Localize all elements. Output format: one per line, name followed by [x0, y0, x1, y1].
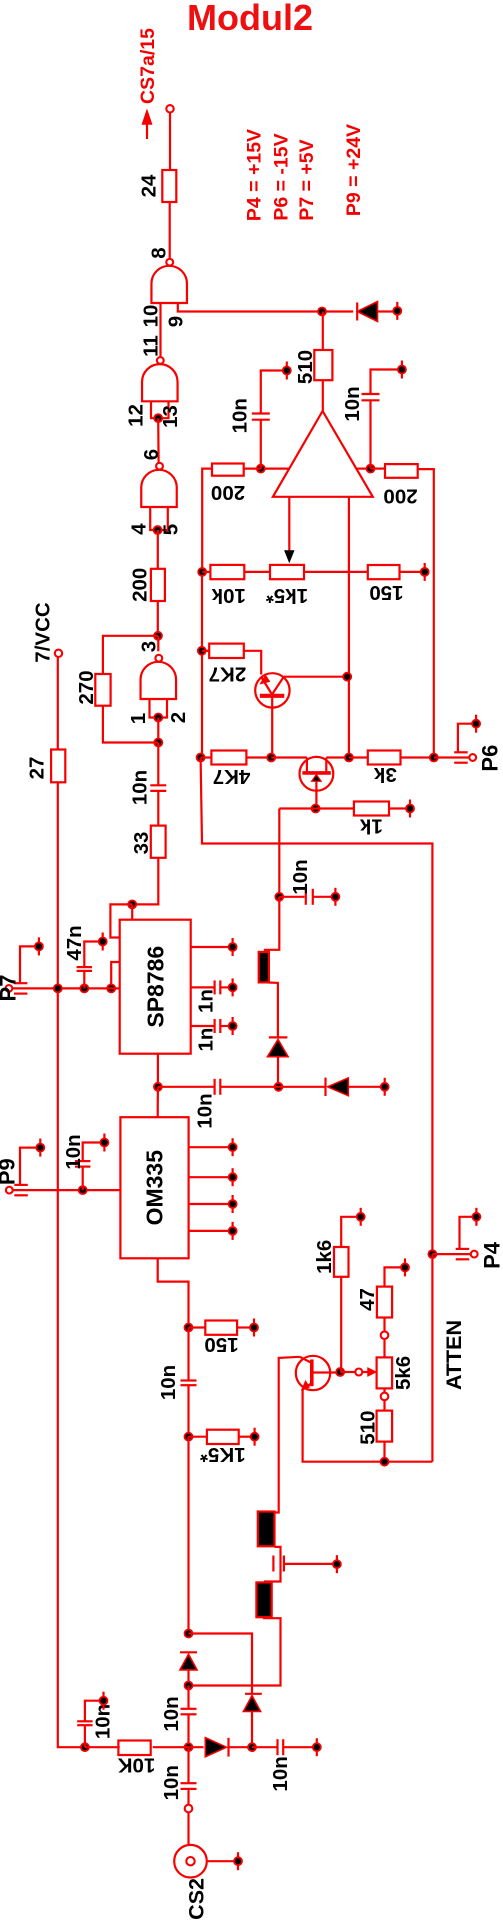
wire [434, 756, 470, 758]
wire pin R1 [191, 946, 229, 948]
wire Q3 emitter [303, 1390, 433, 1462]
wire [157, 601, 159, 636]
wire [383, 1339, 385, 1357]
node junction [248, 1743, 256, 1751]
node junction [154, 1083, 162, 1091]
svg-text:200: 200 [383, 485, 417, 508]
wire [322, 380, 324, 411]
terminal stub [333, 1555, 341, 1573]
wire rail2 [348, 497, 350, 758]
svg-text:P7 = +5V: P7 = +5V [296, 139, 318, 220]
svg-text:24: 24 [138, 174, 161, 197]
svg-text:47n: 47n [63, 925, 86, 960]
svg-text:10: 10 [140, 305, 163, 328]
wire [349, 756, 434, 758]
node junction [81, 1743, 89, 1751]
node junction Q1 base [267, 754, 275, 762]
wire [132, 858, 158, 905]
node junction [185, 1324, 193, 1332]
svg-text:10n: 10n [269, 1756, 292, 1791]
resistor R 1k6 [313, 1240, 348, 1277]
resistor R 2k7 [209, 644, 247, 686]
terminal stub [393, 302, 401, 320]
terminal stub [331, 888, 339, 906]
resistor R 200 left [211, 464, 245, 505]
wire [264, 897, 280, 950]
wire VCC rail [58, 782, 85, 1747]
wire [158, 1258, 189, 1327]
wire [157, 1087, 159, 1117]
capacitor C 10n [160, 1686, 197, 1732]
wire inputs tie [150, 507, 168, 530]
node junction [257, 465, 265, 473]
resistor R 510 [294, 350, 333, 384]
wire [341, 1217, 357, 1372]
terminal stub [398, 361, 406, 379]
wire [157, 530, 159, 569]
transistor Q3 [296, 1356, 337, 1391]
wire P7 tap [20, 946, 36, 983]
svg-text:11: 11 [140, 335, 163, 357]
node junction [345, 754, 353, 762]
svg-text:4: 4 [128, 523, 151, 535]
svg-text:10n: 10n [62, 1134, 85, 1169]
wire 270 bottom [103, 706, 158, 743]
terminal open [185, 1805, 193, 1813]
node junction [154, 739, 162, 747]
pin label 10 [140, 305, 163, 328]
terminal stub [229, 1222, 237, 1240]
nand gate U1B out 11 [142, 357, 178, 401]
wire [189, 1326, 251, 1328]
svg-text:10k: 10k [211, 584, 246, 607]
wire wiper [285, 497, 295, 563]
svg-text:1k: 1k [359, 814, 382, 837]
wire [383, 1388, 385, 1392]
capacitor C 10n [157, 1365, 197, 1400]
svg-text:4K7: 4K7 [213, 765, 251, 788]
node junction [198, 647, 206, 655]
wire pin R2 cap 1n [191, 980, 229, 1013]
svg-text:OM335: OM335 [142, 1150, 168, 1226]
terminal stub [381, 1078, 389, 1096]
connector P6 [454, 745, 502, 772]
wire [157, 718, 159, 743]
svg-text:27: 27 [26, 757, 49, 780]
resistor R 270 [75, 670, 111, 705]
svg-text:10n: 10n [341, 386, 364, 421]
node junction [428, 1250, 436, 1258]
terminal stub [35, 937, 43, 955]
capacitor C 10n right [341, 370, 399, 469]
capacitor C 10n [129, 770, 167, 805]
svg-text:47: 47 [356, 1288, 379, 1311]
wire pin9 [178, 303, 353, 312]
diode D1 [357, 302, 397, 322]
svg-text:5: 5 [160, 524, 183, 535]
diode D6 right [205, 1738, 252, 1757]
wire P9 tap [20, 1148, 37, 1185]
terminal stub [229, 938, 237, 956]
wire pin R4 [189, 1230, 229, 1232]
wire left input [261, 468, 290, 470]
terminal stub [283, 362, 291, 380]
resistor R 33 [130, 826, 166, 858]
terminal stub [357, 1208, 365, 1226]
terminal CS7a open circle [166, 105, 173, 112]
wire [383, 1318, 385, 1332]
wire [187, 1714, 189, 1747]
svg-text:1k6: 1k6 [313, 1240, 336, 1274]
connector P7 [0, 975, 27, 1002]
wire [383, 1400, 385, 1410]
svg-text:P6 = -15V: P6 = -15V [271, 133, 293, 220]
svg-text:8: 8 [148, 247, 171, 258]
svg-text:2: 2 [167, 712, 190, 723]
wire [432, 1253, 471, 1255]
capacitor C 10n cs2 [160, 1747, 197, 1800]
resistor R 200 right [383, 464, 417, 507]
svg-text:10n: 10n [194, 1093, 217, 1128]
terminal stub [100, 1692, 108, 1710]
terminal stub [406, 800, 414, 818]
node junction [185, 1682, 193, 1690]
pin label 13 [159, 405, 182, 428]
node junction [154, 414, 162, 422]
capacitor C 10n out [252, 1739, 313, 1791]
node junction [185, 1433, 193, 1441]
terminal stub [313, 1738, 321, 1756]
wire pin R1 [189, 1146, 229, 1148]
capacitor C 10n left [229, 371, 285, 469]
wire [278, 809, 280, 897]
wire inputs tie [150, 699, 168, 718]
svg-text:510: 510 [357, 1410, 380, 1444]
resistor R 150 [368, 565, 404, 604]
svg-text:7/VCC: 7/VCC [31, 602, 54, 663]
terminal stub [251, 1428, 259, 1446]
wire [187, 1812, 189, 1845]
pin label 6 [140, 449, 163, 460]
terminal stub [472, 1208, 480, 1226]
wire [264, 1547, 281, 1582]
svg-text:5k6: 5k6 [392, 1356, 415, 1390]
connector P9 [0, 1158, 28, 1195]
node junction [79, 1186, 87, 1194]
svg-text:200: 200 [211, 481, 245, 504]
wire P4 tap [460, 1217, 473, 1249]
wire [244, 468, 261, 470]
wire Q1 collector [284, 676, 347, 678]
wire [189, 1617, 281, 1685]
terminal stub [36, 1139, 44, 1157]
resistor R 24 [138, 170, 177, 202]
wire rail4 top [418, 469, 434, 757]
svg-text:10n: 10n [289, 859, 312, 894]
node junction [128, 900, 136, 908]
wire pin L2 [111, 962, 120, 988]
wire [400, 571, 422, 573]
terminal stub [472, 715, 480, 733]
wire [13, 1189, 121, 1191]
wire [187, 1437, 189, 1634]
node junction [381, 1458, 389, 1466]
ic U3 SP8786 [120, 920, 191, 1054]
wire [169, 113, 171, 171]
wire to 510 [322, 312, 324, 351]
node junction [343, 673, 351, 681]
connector P4 [456, 1241, 503, 1269]
svg-text:ATTEN: ATTEN [442, 1320, 466, 1390]
resistor R 3k [368, 751, 401, 786]
wire wiper arrow [362, 1367, 376, 1376]
capacitor C 47n [63, 925, 99, 988]
capacitor C tap [273, 1556, 333, 1572]
wire [266, 982, 278, 1037]
wire [271, 756, 307, 758]
resistor R 27 [26, 750, 66, 783]
wire [187, 1385, 189, 1437]
node junction [312, 805, 320, 813]
diode D4 up [243, 1694, 261, 1747]
wire [304, 571, 349, 573]
title Modul2 [187, 0, 313, 38]
capacitor C 10n vcc [77, 1701, 114, 1748]
ferrite bead FB2 [258, 1512, 275, 1547]
wire pin R2 [189, 1176, 229, 1178]
connector CS2 [174, 1845, 234, 1920]
node junction [275, 1083, 283, 1091]
wire [157, 636, 159, 652]
resistor R 5k6 trimmer [377, 1356, 416, 1390]
node junction [80, 984, 88, 992]
wire [201, 756, 272, 758]
node junction [318, 308, 326, 316]
svg-text:1: 1 [127, 713, 150, 724]
svg-text:P9 = +24V: P9 = +24V [343, 124, 365, 216]
nand gate U1C out 6 [141, 463, 177, 507]
node junction [185, 1743, 193, 1751]
svg-text:9: 9 [164, 316, 187, 327]
svg-text:3: 3 [138, 641, 161, 652]
transistor Q2 jfet [300, 757, 334, 809]
node junction [54, 984, 62, 992]
ic U4 OM335 [120, 1117, 188, 1258]
wire [340, 1371, 355, 1373]
svg-text:12: 12 [125, 404, 148, 427]
resistor R 150b [204, 1321, 238, 1357]
transistor Q1 [255, 673, 289, 757]
wire [187, 1328, 189, 1381]
svg-text:1n: 1n [195, 989, 218, 1013]
svg-text:10n: 10n [129, 770, 152, 805]
node junction [275, 893, 283, 901]
node junction Q3 base [336, 1368, 344, 1376]
svg-text:1k5*: 1k5* [266, 584, 308, 607]
net label P7 = +5V [296, 139, 318, 220]
svg-text:CS7a/15: CS7a/15 [137, 28, 159, 104]
wire pin L1 [110, 904, 132, 937]
nand gate U1A out 8 [151, 259, 187, 303]
node junction [154, 714, 162, 722]
wire [202, 571, 270, 573]
wire [189, 1436, 252, 1438]
resistor R 200 [129, 568, 165, 602]
node junction [185, 1630, 193, 1638]
wire rail3 bottom [431, 1254, 433, 1462]
node junction [367, 465, 375, 473]
wire [383, 1442, 385, 1462]
pin label 11 [140, 335, 163, 357]
wire [57, 657, 59, 750]
net label P9 = +24V [343, 124, 365, 216]
pin label 9 [164, 316, 187, 327]
terminal stub [401, 1258, 409, 1276]
node junction [107, 984, 115, 992]
wire branch [189, 1634, 253, 1694]
svg-text:Modul2: Modul2 [187, 0, 313, 38]
wire [371, 468, 386, 470]
node CS7a/15 label [137, 28, 159, 104]
node 7/VCC label [31, 602, 54, 663]
diode D2 up [268, 1037, 289, 1086]
resistor R 4k7 [211, 751, 250, 788]
svg-text:270: 270 [75, 670, 98, 704]
svg-text:150: 150 [369, 581, 403, 604]
svg-text:2K7: 2K7 [209, 662, 247, 685]
resistor R 10k [210, 565, 246, 607]
terminal stub [229, 1168, 237, 1186]
resistor R 1k5* trimmer [266, 565, 308, 607]
wire [349, 571, 368, 573]
op-amp U2 [273, 411, 373, 497]
resistor R 47 [356, 1287, 392, 1318]
svg-text:CS2: CS2 [184, 1878, 208, 1920]
svg-text:200: 200 [129, 568, 152, 602]
wire 270 top [103, 636, 158, 674]
terminal open [381, 1331, 389, 1339]
terminal stub [229, 1138, 237, 1156]
terminal 7/VCC [55, 650, 62, 657]
diode D3 left [279, 1078, 382, 1096]
wire pin R3 [189, 1203, 229, 1205]
wire [385, 1267, 402, 1286]
terminal stub [100, 1134, 108, 1152]
svg-text:10n: 10n [229, 398, 252, 433]
terminal stub [234, 1852, 242, 1870]
diode D5 up [180, 1652, 197, 1685]
wire [157, 418, 160, 463]
wire inputs tie [151, 401, 169, 418]
wire [85, 1746, 204, 1748]
pin label 8 [148, 247, 171, 258]
terminal stub [99, 933, 107, 951]
svg-text:150: 150 [204, 1333, 238, 1356]
wire [187, 1789, 189, 1805]
wire bus [12, 987, 119, 989]
wire top pin [131, 904, 133, 919]
capacitor C 10n [158, 1079, 279, 1129]
capacitor C 10n tap [279, 859, 332, 904]
node ATTEN label [442, 1320, 466, 1390]
svg-text:10n: 10n [160, 1696, 183, 1731]
wire P6 tap [458, 724, 473, 753]
wire [279, 807, 354, 809]
svg-text:P9: P9 [0, 1158, 20, 1185]
wire [326, 756, 349, 758]
wire [244, 651, 261, 675]
node junction [198, 568, 206, 576]
resistor R 10k b [118, 1741, 156, 1777]
wire [389, 807, 407, 809]
terminal stub [229, 1195, 237, 1213]
pin label 1 [127, 713, 150, 724]
wire bottom pin [157, 1054, 159, 1087]
svg-text:10n: 10n [157, 1365, 180, 1400]
pin label 2 [167, 712, 190, 723]
ferrite bead FB3 [256, 1582, 271, 1617]
wire [157, 791, 159, 826]
terminal stub [229, 1017, 237, 1035]
svg-text:13: 13 [159, 405, 182, 428]
arrow to CS7a/15 [143, 111, 152, 139]
terminal open [381, 1393, 389, 1401]
svg-text:P4 = +15V: P4 = +15V [244, 129, 266, 221]
node junction [430, 754, 438, 762]
svg-text:P6: P6 [477, 745, 502, 772]
wire rail1 top [202, 469, 212, 572]
svg-text:10K: 10K [118, 1753, 156, 1776]
svg-text:SP8786: SP8786 [142, 946, 168, 1028]
svg-text:510: 510 [294, 350, 317, 384]
wire [157, 743, 159, 786]
pin label 3 [138, 641, 161, 652]
svg-text:3k: 3k [373, 763, 396, 786]
terminal stub [229, 978, 237, 996]
svg-text:6: 6 [140, 449, 163, 460]
wire Q3 collector [266, 1357, 300, 1513]
terminal open [355, 1369, 362, 1376]
wire [169, 202, 171, 258]
node junction [154, 632, 162, 640]
resistor R 1k5*b [200, 1430, 246, 1466]
wire [202, 650, 209, 652]
capacitor C 10n [62, 1134, 101, 1190]
wire rail1 bottom corner [201, 758, 433, 1255]
net label P6 = -15V [271, 133, 293, 220]
node junction [197, 754, 205, 762]
pin label 12 [125, 404, 148, 427]
net label P4 = +15V [244, 129, 266, 221]
svg-text:P4: P4 [479, 1241, 503, 1269]
wire right input [356, 468, 371, 470]
node junction [154, 526, 162, 534]
nand gate U1D out 3 [141, 655, 177, 699]
svg-text:33: 33 [130, 832, 153, 855]
resistor R 1k [354, 802, 389, 838]
wire rail1 mid [201, 572, 203, 758]
svg-text:1K5*: 1K5* [200, 1443, 246, 1466]
svg-text:10n: 10n [160, 1765, 183, 1800]
terminal stub [250, 1319, 258, 1337]
pin label 5 [160, 524, 183, 535]
ferrite bead FB1 [259, 952, 269, 983]
wire pin R3 cap 1n [191, 1019, 229, 1051]
terminal stub [421, 563, 429, 581]
pin label 4 [128, 523, 151, 535]
wire pin10 [159, 303, 161, 357]
resistor R 510b [357, 1410, 392, 1444]
